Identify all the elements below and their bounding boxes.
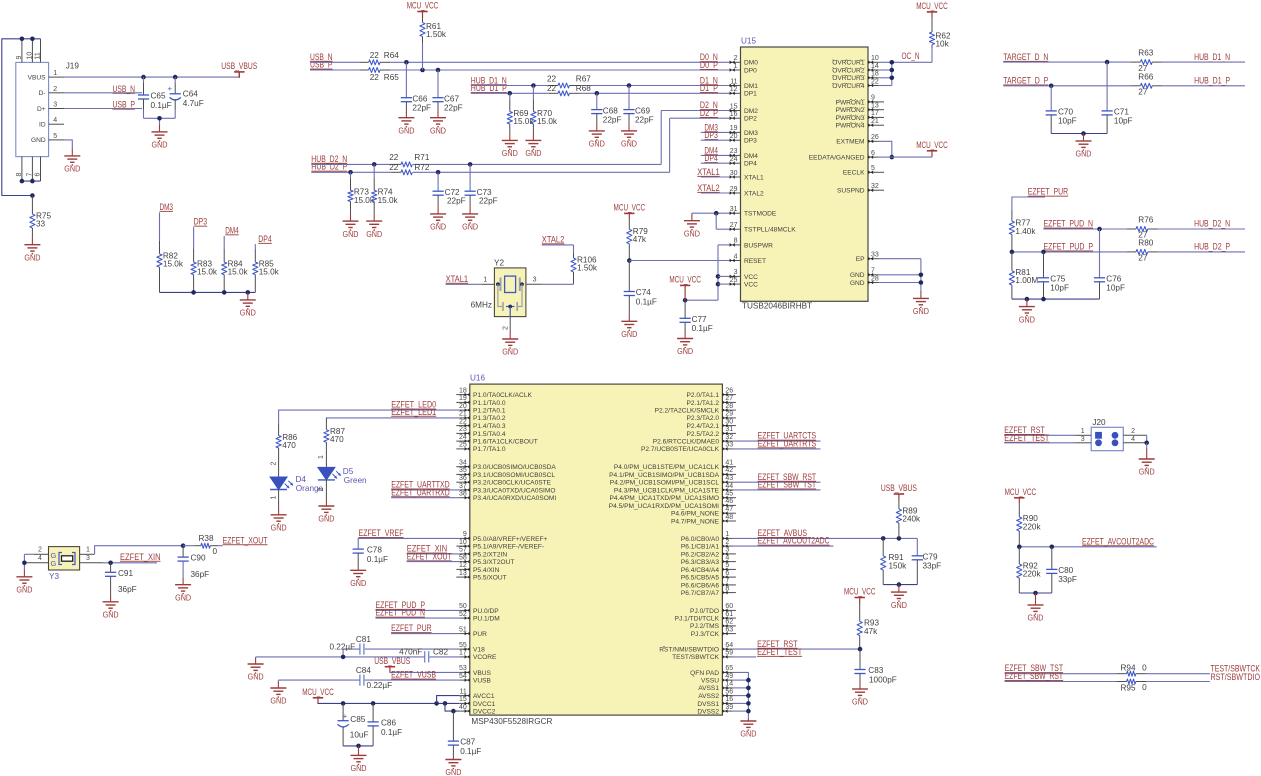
svg-text:13: 13 — [871, 103, 879, 110]
svg-text:P1.7/TA1.0: P1.7/TA1.0 — [473, 446, 506, 453]
svg-text:TEST/SBWTCK: TEST/SBWTCK — [672, 654, 719, 661]
svg-text:EZFET_PUD_P: EZFET_PUD_P — [1044, 242, 1094, 252]
wire BUSPWR to VCC — [683, 245, 730, 303]
svg-text:23: 23 — [459, 426, 467, 433]
svg-text:10pF: 10pF — [1114, 117, 1133, 126]
svg-text:P4.5/PM_UCA1RXD/PM_UCA1SOMI: P4.5/PM_UCA1RXD/PM_UCA1SOMI — [609, 503, 719, 510]
svg-text:4: 4 — [1131, 436, 1135, 443]
svg-text:C91: C91 — [118, 569, 133, 578]
resistor R87 — [324, 418, 346, 468]
capacitor C82 — [256, 647, 460, 662]
svg-text:29: 29 — [730, 186, 738, 193]
svg-text:33: 33 — [725, 442, 733, 449]
svg-text:VSSU: VSSU — [701, 678, 719, 685]
svg-text:VCORE: VCORE — [473, 654, 497, 661]
svg-text:XTAL2: XTAL2 — [542, 234, 565, 244]
svg-text:MCU_VCC: MCU_VCC — [844, 587, 876, 597]
net label EZFET_UARTTXD — [391, 480, 459, 490]
svg-text:USB_VBUS: USB_VBUS — [221, 61, 257, 71]
svg-text:16: 16 — [725, 696, 733, 703]
svg-text:GND: GND — [430, 222, 446, 232]
svg-text:R38: R38 — [199, 534, 214, 543]
svg-text:P3.4/UCA0RXD/UCA0SOMI: P3.4/UCA0RXD/UCA0SOMI — [473, 495, 556, 502]
ground below C77 — [684, 331, 686, 339]
wire C85 C86 join — [343, 744, 373, 749]
svg-text:22pF: 22pF — [412, 104, 431, 113]
svg-text:6: 6 — [35, 173, 42, 177]
svg-text:EEDATA/GANGED: EEDATA/GANGED — [809, 155, 865, 162]
svg-text:49: 49 — [725, 673, 733, 680]
svg-text:AVSS1: AVSS1 — [698, 685, 719, 692]
wire USB_P line — [310, 68, 730, 73]
svg-text:EZFET_TEST: EZFET_TEST — [1004, 433, 1049, 443]
svg-text:470: 470 — [330, 435, 344, 444]
svg-text:GND: GND — [502, 148, 518, 158]
svg-text:GND: GND — [270, 696, 286, 706]
svg-text:470: 470 — [282, 441, 296, 450]
resistor R91 — [881, 538, 908, 584]
ground below C68 — [596, 123, 598, 130]
svg-text:EZFET_XOUT: EZFET_XOUT — [223, 535, 268, 545]
ground at C84 — [270, 680, 286, 706]
resistor R66 — [1131, 72, 1162, 96]
svg-text:Green: Green — [344, 476, 367, 485]
svg-text:EZFET_TEST: EZFET_TEST — [757, 647, 802, 657]
capacitor C91 — [105, 563, 137, 595]
wire OVRCUR chain to OC_N — [879, 48, 933, 86]
svg-text:17: 17 — [871, 110, 879, 117]
svg-text:24: 24 — [730, 156, 738, 163]
svg-text:GND: GND — [525, 148, 541, 158]
svg-text:DP3: DP3 — [744, 138, 757, 145]
ground below C67 — [437, 110, 439, 118]
svg-text:33: 33 — [36, 220, 46, 229]
svg-text:P3.1/UCB0SOMI/UCB0SCL: P3.1/UCB0SOMI/UCB0SCL — [473, 472, 555, 479]
power USB_VBUS at J19 — [221, 61, 257, 78]
svg-text:VUSB: VUSB — [473, 678, 492, 685]
resistor R79 — [627, 219, 649, 260]
svg-text:PWRON4: PWRON4 — [836, 123, 865, 130]
svg-text:61: 61 — [725, 611, 733, 618]
ground below R73 — [350, 214, 352, 222]
svg-text:45: 45 — [725, 491, 733, 498]
svg-text:1.50k: 1.50k — [577, 264, 598, 273]
svg-text:+: + — [343, 712, 348, 721]
svg-text:XTAL1: XTAL1 — [744, 174, 764, 181]
svg-text:D+: D+ — [37, 106, 46, 113]
net label USB_N at J19 — [64, 84, 142, 94]
connector J19 — [16, 39, 80, 181]
resistor R106 — [571, 253, 598, 284]
svg-text:1000pF: 1000pF — [869, 675, 897, 684]
svg-text:DP4: DP4 — [744, 161, 757, 168]
svg-text:63: 63 — [725, 626, 733, 633]
svg-text:24: 24 — [459, 434, 467, 441]
svg-text:PWRON2: PWRON2 — [836, 107, 865, 114]
svg-text:21: 21 — [459, 411, 467, 418]
svg-text:TSTMODE: TSTMODE — [744, 211, 777, 218]
svg-text:8: 8 — [16, 173, 23, 177]
svg-text:G: G — [51, 559, 57, 568]
svg-text:GND: GND — [351, 763, 367, 773]
svg-text:27: 27 — [725, 395, 733, 402]
svg-text:GND: GND — [891, 600, 907, 610]
svg-text:U15: U15 — [741, 37, 756, 46]
svg-text:P2.6/RTCCLK/DMAE0: P2.6/RTCCLK/DMAE0 — [653, 439, 720, 446]
svg-text:P6.6/CB6/A6: P6.6/CB6/A6 — [681, 582, 719, 589]
net label EZFET_TEST at J20 — [1004, 433, 1075, 443]
svg-text:65: 65 — [725, 665, 733, 672]
svg-text:22pF: 22pF — [447, 196, 466, 205]
capacitor C81 — [329, 635, 459, 657]
svg-text:PUR: PUR — [473, 631, 487, 638]
capacitor C70 — [1046, 86, 1077, 134]
svg-text:MCU_VCC: MCU_VCC — [614, 203, 646, 213]
crystal Y2 — [471, 258, 542, 331]
net label XTAL2 at U15 — [697, 183, 730, 193]
svg-text:GND: GND — [684, 228, 700, 238]
resistor R73 — [348, 172, 375, 213]
svg-text:50: 50 — [459, 603, 467, 610]
LED D4 Orange — [270, 462, 323, 508]
capacitor C71 — [1102, 62, 1133, 133]
svg-text:P5.0/A8/VREF+/VEREF+: P5.0/A8/VREF+/VEREF+ — [473, 536, 548, 543]
svg-text:R65: R65 — [384, 73, 399, 82]
svg-text:R64: R64 — [384, 51, 399, 60]
svg-text:PU.0/DP: PU.0/DP — [473, 608, 499, 615]
svg-text:32: 32 — [725, 434, 733, 441]
svg-text:0: 0 — [1142, 663, 1147, 672]
net label DM4 at U15 — [701, 145, 730, 155]
svg-text:GND: GND — [24, 252, 40, 262]
svg-text:15.0k: 15.0k — [197, 268, 218, 277]
wire to HUB_D2_N right — [1158, 228, 1246, 230]
svg-text:Y3: Y3 — [49, 572, 59, 581]
svg-text:MCU_VCC: MCU_VCC — [1005, 487, 1037, 497]
ground below C65 C64 — [159, 124, 161, 131]
wire EXTMEM to EEDATA — [879, 141, 933, 159]
svg-text:P4.1/PM_UCB1SIMO/PM_UCB1SDA: P4.1/PM_UCB1SIMO/PM_UCB1SDA — [609, 472, 720, 479]
svg-text:10pF: 10pF — [1050, 284, 1069, 293]
svg-text:15.0k: 15.0k — [537, 117, 558, 126]
capacitor C83 — [854, 649, 896, 684]
svg-text:GND: GND — [852, 697, 868, 707]
power MCU_VCC above R90 — [1014, 497, 1024, 499]
power MCU_VCC above R61 — [417, 11, 427, 13]
svg-text:TARGET_D_N: TARGET_D_N — [1003, 52, 1048, 62]
svg-text:XTAL1: XTAL1 — [446, 274, 469, 284]
svg-text:33pF: 33pF — [1058, 575, 1077, 584]
svg-text:36pF: 36pF — [191, 570, 210, 579]
svg-text:P1.6/TA1CLK/CBOUT: P1.6/TA1CLK/CBOUT — [473, 439, 538, 446]
svg-text:25: 25 — [730, 277, 738, 284]
svg-text:P5.1/A9/VREF-/VEREF-: P5.1/A9/VREF-/VEREF- — [473, 544, 544, 551]
ground below R74 — [373, 214, 375, 222]
svg-text:P1.2/TA0.1: P1.2/TA0.1 — [473, 408, 506, 415]
svg-text:HUB_D2_N: HUB_D2_N — [1194, 219, 1230, 229]
svg-text:C70: C70 — [1058, 107, 1073, 116]
svg-text:27: 27 — [1138, 254, 1148, 263]
svg-text:OVRCUR2: OVRCUR2 — [832, 68, 865, 75]
svg-text:P4.2/PM_UCB1SOMI/PM_UCB1SCL: P4.2/PM_UCB1SOMI/PM_UCB1SCL — [610, 480, 720, 487]
svg-text:3: 3 — [86, 555, 90, 562]
wire EZFET_LED1 — [326, 417, 459, 419]
resistor R84 — [222, 236, 249, 293]
svg-text:47k: 47k — [864, 627, 878, 636]
svg-text:0.1µF: 0.1µF — [460, 747, 481, 756]
ground below C78 — [357, 569, 359, 571]
svg-text:0.1µF: 0.1µF — [367, 555, 388, 564]
svg-text:USB_P: USB_P — [310, 60, 333, 70]
ground below C87 — [452, 758, 454, 760]
wire TARGET_D_N — [1003, 60, 1130, 65]
svg-text:R63: R63 — [1138, 49, 1153, 58]
svg-text:13: 13 — [459, 570, 467, 577]
wire HUB_D2_P line — [311, 118, 730, 174]
svg-text:38: 38 — [459, 491, 467, 498]
svg-text:GND: GND — [430, 125, 446, 135]
svg-text:2: 2 — [53, 86, 57, 93]
svg-text:GND: GND — [1076, 149, 1092, 159]
svg-text:GND: GND — [318, 514, 334, 524]
wire Y3 ground pins — [22, 554, 34, 569]
svg-text:PU.1/DM: PU.1/DM — [473, 616, 500, 623]
svg-text:56: 56 — [725, 688, 733, 695]
svg-text:22: 22 — [389, 153, 399, 162]
ground below C73 — [469, 206, 471, 214]
svg-text:P6.7/CB7/A7: P6.7/CB7/A7 — [681, 590, 719, 597]
wire EZFET_AVCOUT2ADC right — [1017, 545, 1157, 550]
svg-text:1: 1 — [1081, 428, 1085, 435]
svg-text:GND: GND — [271, 523, 287, 533]
svg-text:1: 1 — [53, 70, 57, 77]
capacitor C87 — [448, 711, 482, 757]
ground below C74 — [628, 314, 630, 322]
wire SBW_RST to R95 — [1005, 681, 1117, 683]
wire EZFET_PUD_N — [1044, 227, 1127, 232]
svg-text:11: 11 — [730, 78, 737, 85]
svg-text:64: 64 — [725, 642, 733, 649]
svg-text:D0_P: D0_P — [700, 60, 718, 70]
svg-text:GND: GND — [913, 306, 929, 316]
svg-text:0.22µF: 0.22µF — [367, 681, 393, 690]
ground at J19 pin5 — [64, 140, 80, 174]
wire C70 C71 join — [1051, 131, 1107, 136]
svg-text:43: 43 — [725, 475, 733, 482]
svg-text:P6.2/CB2/A2: P6.2/CB2/A2 — [681, 551, 719, 558]
svg-text:P3.2/UCB0CLK/UCA0STE: P3.2/UCB0CLK/UCA0STE — [473, 480, 552, 487]
svg-text:DVCC1: DVCC1 — [473, 701, 496, 708]
svg-text:10k: 10k — [936, 40, 950, 49]
svg-text:220k: 220k — [1023, 570, 1042, 579]
svg-text:SUSPND: SUSPND — [837, 188, 865, 195]
wire EZFET_VREF — [358, 538, 459, 549]
svg-text:20: 20 — [730, 133, 738, 140]
svg-text:36pF: 36pF — [118, 585, 137, 594]
svg-text:15.0k: 15.0k — [228, 268, 249, 277]
capacitor C74 — [624, 261, 657, 314]
svg-text:C86: C86 — [381, 718, 396, 727]
resistor R83 — [191, 227, 218, 292]
svg-text:C80: C80 — [1058, 566, 1073, 575]
svg-text:XTAL1: XTAL1 — [697, 167, 720, 177]
resistor R71 — [389, 153, 430, 167]
wire USB_N line — [310, 60, 730, 65]
svg-text:1.50k: 1.50k — [426, 30, 447, 39]
svg-text:HUB_D1_P: HUB_D1_P — [1194, 76, 1230, 86]
svg-text:15: 15 — [730, 103, 738, 110]
svg-text:18: 18 — [459, 387, 467, 394]
svg-text:P2.3/TA2.0: P2.3/TA2.0 — [687, 415, 720, 422]
capacitor C75 — [1038, 252, 1069, 299]
resistor R86 — [276, 424, 298, 477]
svg-text:3: 3 — [1081, 436, 1085, 443]
svg-text:2: 2 — [1131, 428, 1135, 435]
capacitor C66 — [401, 62, 431, 112]
capacitor C80 — [1046, 547, 1077, 593]
svg-text:EZFET_VUSB: EZFET_VUSB — [391, 670, 436, 680]
svg-text:P5.4/XIN: P5.4/XIN — [473, 567, 500, 574]
svg-text:R80: R80 — [1138, 238, 1153, 247]
svg-text:RESET: RESET — [744, 258, 766, 265]
svg-text:DM4: DM4 — [225, 225, 239, 235]
svg-text:0.1µF: 0.1µF — [692, 324, 713, 333]
svg-text:P4.4/PM_UCA1TXD/PM_UCA1SIMO: P4.4/PM_UCA1TXD/PM_UCA1SIMO — [609, 495, 719, 502]
svg-text:2: 2 — [318, 488, 325, 492]
ground below C91 — [110, 594, 112, 602]
svg-text:39: 39 — [725, 704, 733, 711]
wire pulldown array rail — [160, 290, 256, 295]
net label EZFET_PUD_N at U16 — [376, 608, 460, 618]
ground below C83 — [859, 682, 861, 690]
svg-text:6MHz: 6MHz — [471, 301, 492, 310]
svg-text:DM3: DM3 — [160, 202, 174, 212]
svg-text:MCU_VCC: MCU_VCC — [302, 687, 334, 697]
svg-text:GND: GND — [589, 139, 605, 149]
svg-text:OVRCUR3: OVRCUR3 — [832, 75, 865, 82]
resistor R94 — [1117, 663, 1148, 676]
wire to HUB_D1_P — [1162, 85, 1245, 87]
svg-text:25: 25 — [459, 442, 467, 449]
svg-text:22pF: 22pF — [444, 104, 463, 113]
svg-text:USB_VBUS: USB_VBUS — [374, 656, 410, 666]
svg-text:R76: R76 — [1138, 216, 1153, 225]
resistor R89 — [896, 500, 921, 538]
svg-text:GND: GND — [343, 229, 359, 239]
svg-text:29: 29 — [725, 411, 733, 418]
svg-text:2: 2 — [38, 547, 42, 554]
svg-text:0.1µF: 0.1µF — [636, 298, 657, 307]
svg-text:60: 60 — [725, 603, 733, 610]
svg-text:1: 1 — [270, 496, 277, 500]
ground at J20 — [1146, 448, 1148, 459]
svg-text:GND: GND — [445, 767, 461, 776]
svg-text:EXTMEM: EXTMEM — [836, 139, 864, 146]
ground at U15 GND pins — [920, 291, 922, 299]
crystal Y3 — [24, 547, 103, 581]
svg-text:P6.4/CB4/A4: P6.4/CB4/A4 — [681, 567, 719, 574]
ground below C72 — [437, 206, 439, 214]
svg-text:D-: D- — [39, 90, 46, 97]
net label EZFET_RST at J20 — [1004, 425, 1075, 435]
ground below D4 — [278, 507, 280, 515]
svg-text:P2.2/TA2CLK/SMCLK: P2.2/TA2CLK/SMCLK — [655, 408, 720, 415]
svg-text:QFN PAD: QFN PAD — [690, 670, 719, 677]
wire to HUB_D1_N — [1162, 61, 1245, 63]
svg-text:BUSPWR: BUSPWR — [744, 242, 773, 249]
svg-text:P3.3/UCA0TXD/UCA0SIMO: P3.3/UCA0TXD/UCA0SIMO — [473, 487, 555, 494]
resistor R93 — [857, 604, 879, 650]
svg-text:GND: GND — [740, 729, 756, 739]
svg-text:0: 0 — [213, 547, 218, 556]
svg-text:EZFET_SBW_RST: EZFET_SBW_RST — [1005, 671, 1064, 681]
svg-text:31: 31 — [725, 426, 733, 433]
svg-text:14: 14 — [871, 63, 879, 70]
svg-text:AVCC1: AVCC1 — [473, 693, 495, 700]
svg-text:EZFET_PUR: EZFET_PUR — [1028, 187, 1069, 197]
svg-text:0.1µF: 0.1µF — [151, 101, 172, 110]
net label EZFET_SBW_TST — [733, 480, 821, 490]
svg-text:22: 22 — [370, 73, 380, 82]
svg-text:DP0: DP0 — [744, 68, 757, 75]
svg-text:DM1: DM1 — [744, 83, 758, 90]
svg-text:GND: GND — [502, 347, 518, 357]
svg-text:VBUS: VBUS — [473, 670, 492, 677]
wire PUD filter gnd rail — [1012, 297, 1100, 302]
svg-text:19: 19 — [459, 395, 467, 402]
svg-text:R67: R67 — [576, 74, 591, 83]
svg-text:HUB_D2_P: HUB_D2_P — [311, 162, 347, 172]
svg-text:5: 5 — [53, 133, 57, 140]
net label EZFET_XOUT at U16 — [407, 551, 460, 561]
net label USB_P at J19 — [64, 100, 142, 110]
net label EZFET_SBW_RST — [733, 472, 821, 482]
power MCU_VCC above R93 — [855, 597, 865, 599]
svg-text:D5: D5 — [343, 467, 354, 476]
svg-text:42: 42 — [725, 467, 733, 474]
svg-text:15: 15 — [459, 696, 467, 703]
svg-text:22: 22 — [547, 84, 557, 93]
IC U16 MSP430F5528IRGCR — [456, 374, 736, 726]
svg-text:0.22µF: 0.22µF — [329, 642, 355, 651]
capacitor C86 — [368, 703, 403, 746]
svg-text:C71: C71 — [1114, 107, 1129, 116]
svg-text:1.00M: 1.00M — [1015, 276, 1038, 285]
svg-text:GND: GND — [1139, 467, 1155, 477]
svg-text:31: 31 — [730, 206, 738, 213]
svg-text:240k: 240k — [902, 515, 921, 524]
ground below C70 C71 — [1083, 134, 1085, 142]
svg-text:P1.5/TA0.4: P1.5/TA0.4 — [473, 431, 506, 438]
net label DP4 at U15 — [701, 153, 730, 163]
svg-text:11: 11 — [460, 688, 467, 695]
svg-text:17: 17 — [459, 650, 467, 657]
ground at C81 C82 — [248, 657, 264, 682]
svg-text:VCC: VCC — [744, 282, 758, 289]
svg-text:15.0k: 15.0k — [378, 196, 399, 205]
power MCU_VCC at U16 supply — [313, 697, 323, 699]
svg-text:23: 23 — [730, 148, 738, 155]
net label EZFET_TEST — [733, 647, 803, 657]
net label EZFET_PUR at U16 — [391, 623, 459, 633]
wire MCU_VCC rail — [318, 696, 459, 714]
capacitor C79 — [912, 538, 941, 584]
capacitor C64 polarized — [168, 77, 204, 118]
svg-text:MCU_VCC: MCU_VCC — [916, 140, 948, 150]
net label EZFET_UARTRXD — [391, 487, 459, 497]
svg-text:15.0k: 15.0k — [163, 260, 184, 269]
svg-text:P4.3/PM_UCB1CLK/PM_UCA1STE: P4.3/PM_UCB1CLK/PM_UCA1STE — [614, 487, 720, 494]
